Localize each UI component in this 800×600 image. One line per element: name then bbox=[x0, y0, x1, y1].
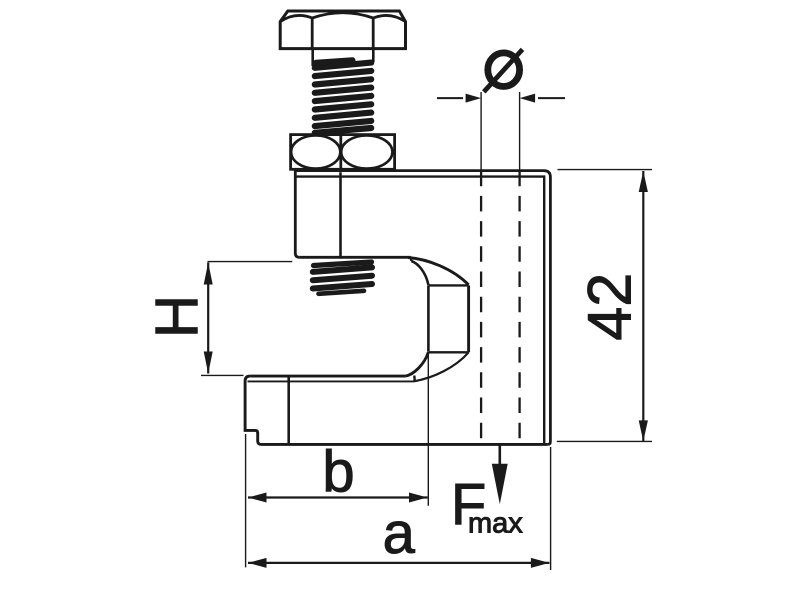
hidden hole line left bbox=[480, 171, 482, 442]
mouth bottom jog bbox=[413, 376, 416, 382]
diameter extension lines bbox=[480, 92, 482, 171]
svg-text:b: b bbox=[322, 439, 354, 504]
bottom-left extension line bbox=[245, 434, 247, 567]
top arm bottom edge (near) bbox=[299, 256, 411, 259]
force arrow Fmax bbox=[492, 445, 508, 505]
dimension b line + arrows bbox=[248, 493, 428, 503]
a right extension line bbox=[550, 447, 552, 570]
svg-text:max: max bbox=[468, 507, 523, 539]
mouth top far fillet arc bbox=[408, 258, 469, 285]
dimension 42 line + arrows bbox=[639, 171, 648, 441]
bolt shank upper bbox=[313, 49, 374, 66]
hex nut bbox=[291, 135, 395, 170]
bolt thread upper bbox=[315, 60, 371, 133]
b right extension line bbox=[427, 352, 429, 506]
mouth top jog bbox=[410, 257, 413, 261]
body top+right inner edge bbox=[296, 177, 544, 443]
svg-text:42: 42 bbox=[576, 273, 644, 341]
bolt head bbox=[280, 11, 405, 49]
mouth back wall rectangle bbox=[428, 285, 468, 352]
mouth top near fillet arc bbox=[411, 261, 428, 285]
hidden hole line right bbox=[518, 171, 520, 442]
mouth bottom near fillet arc bbox=[406, 352, 429, 376]
diameter dimension line + arrows bbox=[437, 94, 565, 103]
dimension H line + arrows bbox=[204, 263, 213, 374]
svg-text:H: H bbox=[144, 295, 211, 338]
bolt thread lower bbox=[313, 262, 372, 294]
diameter symbol bbox=[484, 49, 523, 92]
bottom arm top edge (near) bbox=[250, 375, 405, 378]
mouth bottom far fillet arc bbox=[413, 352, 469, 381]
bottom arm top far edge bbox=[248, 380, 414, 382]
bottom arm inner vertical bbox=[287, 377, 290, 444]
bottom arm outline bbox=[245, 376, 547, 444]
dimension 42 extension lines bbox=[558, 169, 653, 171]
dimension a line + arrows bbox=[248, 558, 549, 568]
clamp top arm outline bbox=[295, 171, 550, 445]
dimension H extension lines bbox=[208, 261, 293, 263]
svg-text:a: a bbox=[383, 501, 416, 566]
top arm inner vertical bbox=[339, 172, 342, 258]
